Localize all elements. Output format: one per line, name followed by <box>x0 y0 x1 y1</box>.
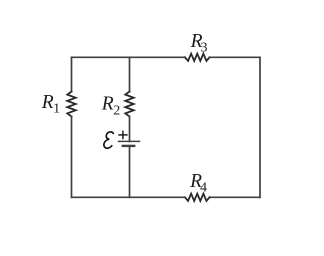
resistor R1 <box>67 92 75 117</box>
svg-text:R: R <box>101 94 114 115</box>
label R3 <box>190 31 208 56</box>
wire middle between R2 and battery <box>129 117 131 142</box>
wire left upper segment <box>71 57 73 91</box>
wire bottom-left segment <box>72 196 186 198</box>
wire top-right segment <box>210 56 261 58</box>
wire middle upper segment <box>129 57 131 91</box>
battery source plate short (negative) <box>123 145 134 147</box>
svg-text:4: 4 <box>200 180 207 195</box>
resistor R3 <box>185 54 210 61</box>
svg-text:1: 1 <box>53 102 60 117</box>
wire bottom-right segment <box>210 196 261 198</box>
battery plus sign <box>119 131 127 138</box>
label R4 <box>189 171 207 196</box>
wire left lower segment <box>71 117 73 198</box>
wire top-left segment <box>72 56 186 58</box>
label R1 <box>41 92 60 117</box>
wire middle below battery <box>129 146 131 197</box>
svg-text:2: 2 <box>113 103 120 118</box>
label EMF script E <box>103 132 113 148</box>
resistor R4 <box>185 194 210 201</box>
svg-text:R: R <box>41 92 54 113</box>
resistor R2 <box>125 92 133 117</box>
label R2 <box>101 94 121 119</box>
wire right side <box>259 57 261 197</box>
battery source plate long (positive) <box>119 140 140 142</box>
svg-text:3: 3 <box>201 40 208 55</box>
